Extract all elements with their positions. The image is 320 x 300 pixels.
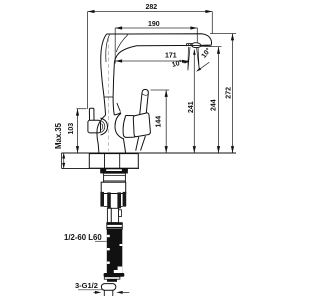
spout xyxy=(107,34,212,46)
svg-text:244: 244 xyxy=(211,99,218,111)
tube tab xyxy=(119,210,122,217)
svg-text:171: 171 xyxy=(165,53,177,60)
spray line left xyxy=(188,47,190,70)
tube left xyxy=(107,208,111,222)
tube right xyxy=(111,208,118,222)
body left edge xyxy=(97,115,106,153)
svg-text:1/2-60 L60: 1/2-60 L60 xyxy=(64,233,102,242)
striped nut xyxy=(107,223,123,230)
dimension 272 right xyxy=(210,34,236,154)
mounting nut body xyxy=(101,182,126,193)
neck inner crease xyxy=(116,35,128,53)
nipple head xyxy=(101,284,115,291)
svg-text:282: 282 xyxy=(146,4,158,11)
body center C bulge xyxy=(115,113,124,139)
boss right line xyxy=(117,103,121,112)
neck left edge xyxy=(101,34,107,115)
svg-text:3-G1/2: 3-G1/2 xyxy=(75,281,98,290)
deck top line xyxy=(62,152,237,154)
svg-text:Max.35: Max.35 xyxy=(54,122,63,149)
handle block xyxy=(133,113,150,137)
right lever cartridge body xyxy=(123,115,136,137)
spout neck fillet xyxy=(114,46,136,62)
deck bottom line xyxy=(62,167,140,169)
svg-text:144: 144 xyxy=(156,116,163,128)
svg-text:10°: 10° xyxy=(200,46,213,59)
deck left edge xyxy=(61,153,63,168)
aerator ridge xyxy=(186,44,192,47)
dimension Max.35 xyxy=(63,153,65,168)
dimension 282 top xyxy=(88,12,213,110)
svg-text:190: 190 xyxy=(148,21,160,28)
hex nut xyxy=(89,154,138,169)
svg-text:241: 241 xyxy=(188,101,195,113)
left lever joint xyxy=(88,120,101,133)
neck seam xyxy=(104,96,113,98)
pipe end cap xyxy=(104,273,125,277)
dimension 244 xyxy=(201,46,222,153)
mounting nut wing strips xyxy=(100,192,104,207)
nipple dim arrows xyxy=(93,291,96,293)
spray line right xyxy=(197,47,200,68)
svg-text:103: 103 xyxy=(68,123,75,135)
seal band xyxy=(103,171,126,173)
dark band xyxy=(107,279,117,281)
threaded pipe 1/2-60 xyxy=(107,229,123,273)
horseshoe washer xyxy=(101,169,128,173)
neck right edge xyxy=(113,62,114,115)
dimension 103 xyxy=(77,109,87,153)
centerline xyxy=(107,38,109,151)
white band xyxy=(104,277,120,279)
left lever rod xyxy=(89,108,94,120)
dimension 241 xyxy=(193,50,195,153)
spacer collar xyxy=(104,173,126,182)
dimension 190 xyxy=(115,28,197,64)
dimension 171 xyxy=(115,60,189,62)
neck left inner line xyxy=(106,35,110,62)
dimension 144 xyxy=(151,90,170,153)
aerator dome xyxy=(191,43,201,48)
body right edge xyxy=(114,113,121,115)
svg-text:10°: 10° xyxy=(171,58,183,69)
svg-text:272: 272 xyxy=(226,87,233,99)
spout tip chamfer xyxy=(201,44,211,47)
boss taper below lever xyxy=(136,137,139,151)
nipple tube xyxy=(104,290,113,296)
left joint hub xyxy=(100,118,107,135)
right lever rod xyxy=(140,89,149,114)
